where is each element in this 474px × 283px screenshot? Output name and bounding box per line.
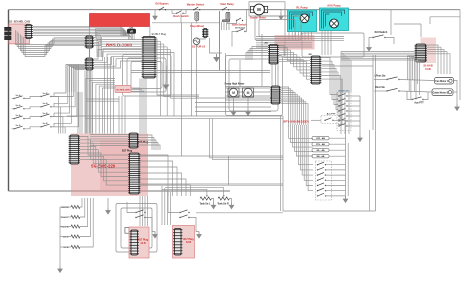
svg-text:Sw A: Sw A [15,124,21,127]
svg-text:VR: VR [130,30,134,34]
svg-text:M: M [257,7,261,12]
svg-text:Start Relay: Start Relay [220,2,234,6]
svg-text:Fan Motor A: Fan Motor A [435,80,449,83]
svg-text:CAB: CAB [425,68,431,71]
svg-text:Aux PTT: Aux PTT [414,102,424,105]
svg-text:Stop (Blue): Stop (Blue) [190,24,204,28]
svg-text:Sw B: Sw B [42,93,48,95]
svg-text:Sw B: Sw B [42,103,48,105]
svg-text:RL Pump: RL Pump [296,6,308,10]
svg-text:Sw A: Sw A [15,114,21,117]
svg-text:S1-HPS-CHK: S1-HPS-CHK [116,89,130,91]
svg-text:S1- SEAHEL CAB: S1- SEAHEL CAB [9,20,30,23]
svg-text:Front T: Front T [61,216,69,219]
svg-text:Oil Bypass: Oil Bypass [155,2,169,6]
svg-text:S1-TUR-10: S1-TUR-10 [192,44,206,48]
svg-text:Kill Switch: Kill Switch [375,31,388,34]
svg-text:M: M [247,91,250,95]
svg-text:LTR - AB: LTR - AB [316,137,325,140]
svg-text:S1 B17 Plug: S1 B17 Plug [152,32,167,36]
svg-text:Cabin Motor B: Cabin Motor B [433,91,449,94]
svg-text:Tank Str L: Tank Str L [199,203,211,206]
svg-text:Oil Switch: Oil Switch [235,26,246,29]
svg-text:A1B2C3D4: A1B2C3D4 [338,90,350,93]
svg-text:B17 Plug: B17 Plug [122,150,133,153]
svg-text:Sw A: Sw A [15,104,21,107]
svg-text:WL - AB: WL - AB [317,149,325,152]
svg-text:SPY-S40-SB123(*): SPY-S40-SB123(*) [283,119,309,123]
svg-text:Sw B: Sw B [42,113,48,115]
svg-text:RHS D-1000: RHS D-1000 [106,43,132,48]
svg-text:Tank Str R: Tank Str R [217,203,229,206]
svg-text:NB - AB: NB - AB [317,155,325,158]
svg-text:Sw B: Sw B [42,123,48,125]
svg-text:Front B: Front B [61,226,69,229]
svg-text:LPxxx Sw: LPxxx Sw [375,76,386,78]
svg-text:M: M [232,91,235,95]
svg-text:Sw A: Sw A [15,94,21,97]
svg-text:Pump High Water: Pump High Water [225,83,245,86]
svg-text:Master Switch: Master Switch [187,3,205,7]
svg-text:Rxxx Sw: Rxxx Sw [375,87,385,89]
svg-text:Aux PTT: Aux PTT [327,113,337,116]
svg-text:RTL - AB: RTL - AB [316,143,325,146]
svg-text:Start Switch: Start Switch [232,22,247,26]
svg-text:12-B: 12-B [140,242,145,245]
svg-text:12-B: 12-B [186,241,191,244]
svg-text:AUX Pump: AUX Pump [327,4,341,8]
